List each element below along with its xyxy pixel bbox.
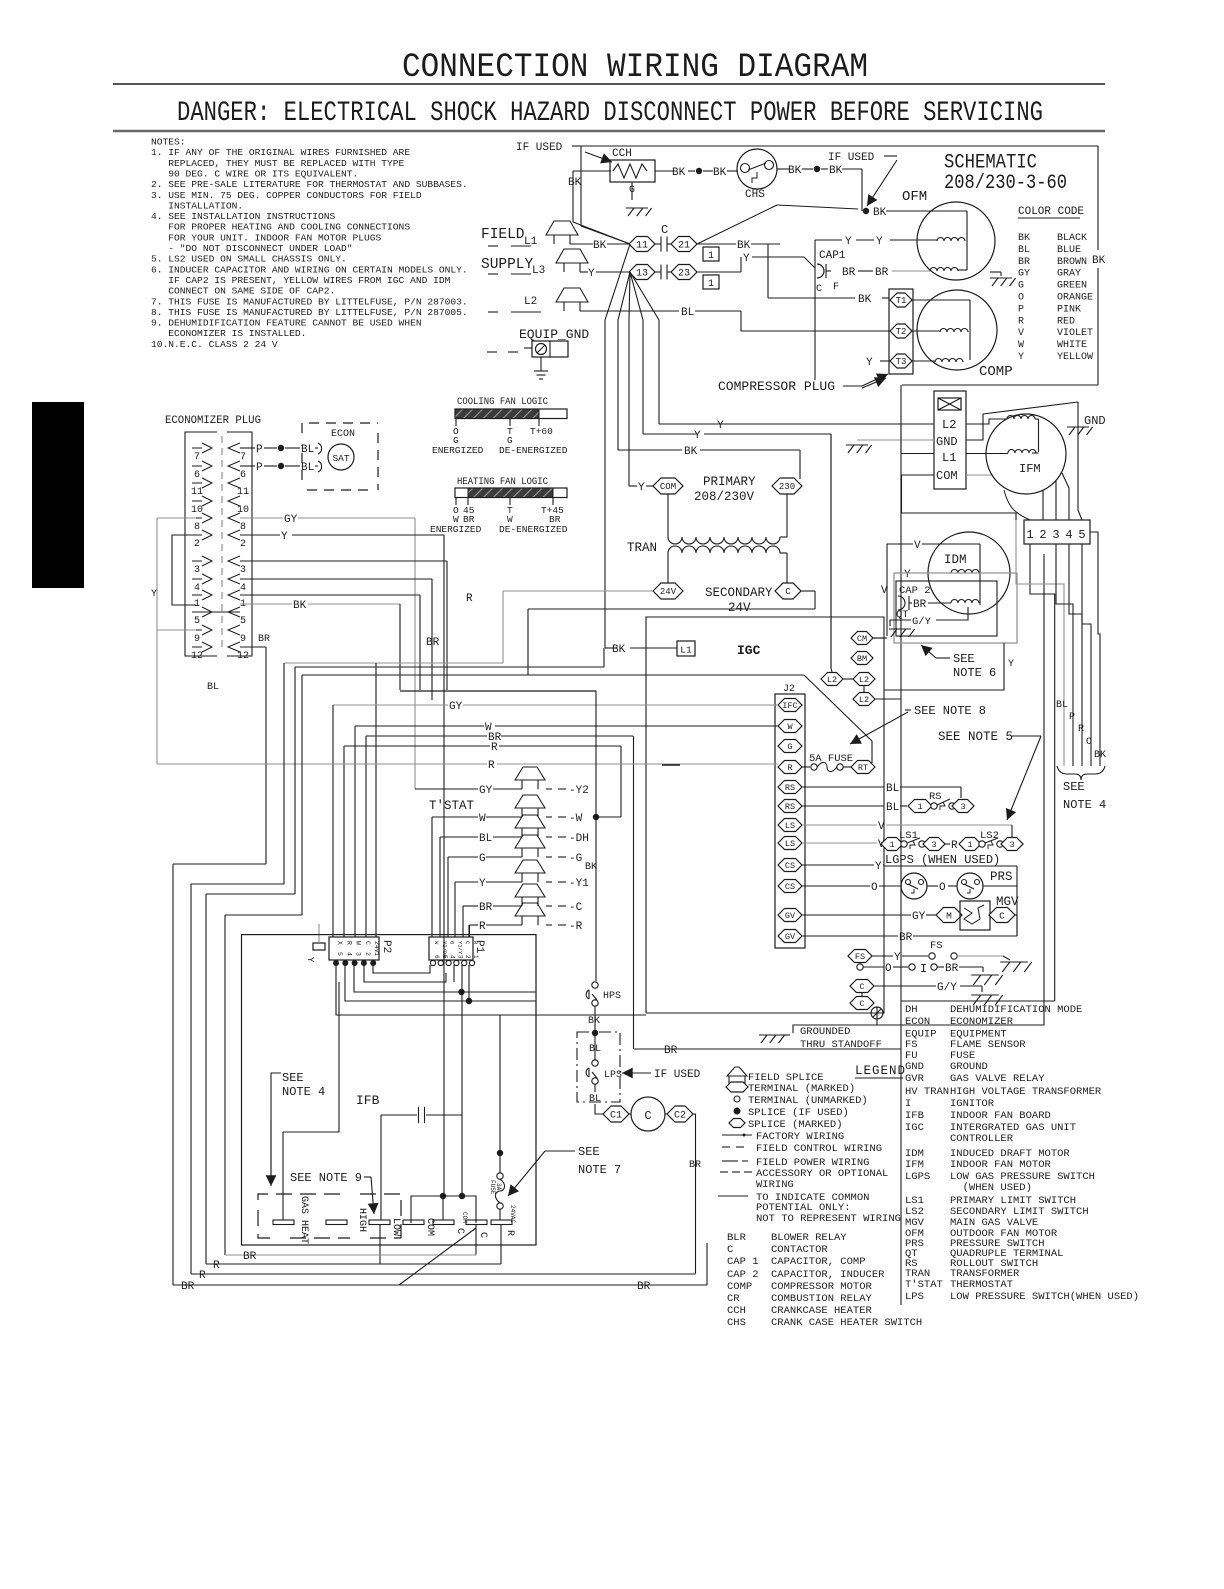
economizer pin 7 bbox=[202, 443, 212, 453]
svg-text:COMP: COMP bbox=[727, 1281, 752, 1293]
wire pin2 long vertical bbox=[877, 554, 1044, 1025]
svg-text:NOTES:: NOTES: bbox=[151, 137, 186, 148]
label SEE NOTE 4 (IFB) bbox=[271, 1073, 281, 1180]
svg-text:WHITE: WHITE bbox=[1057, 340, 1087, 351]
wire strip L2 row bbox=[659, 423, 934, 425]
LPS box (dash-dot) bbox=[577, 1032, 620, 1102]
pressure switch LGPS bbox=[802, 885, 870, 887]
wire R drop to HPS junction bbox=[620, 746, 622, 817]
wire P2-P1 interconnect 5 bbox=[336, 965, 646, 1015]
compressor plug box bbox=[889, 289, 913, 374]
switch HPS bbox=[592, 982, 598, 988]
svg-text:BK: BK bbox=[1018, 233, 1030, 244]
economizer pin 12 bbox=[202, 642, 212, 652]
wire L2 BL bbox=[580, 310, 679, 312]
svg-text:V: V bbox=[878, 821, 885, 833]
svg-text:ENERGIZED: ENERGIZED bbox=[432, 445, 484, 456]
IGC terminal CM bbox=[851, 632, 873, 645]
svg-text:R: R bbox=[345, 941, 352, 945]
J2 terminal GV bbox=[778, 909, 802, 922]
svg-text:2. SEE PRE-SALE LITERATURE FOR: 2. SEE PRE-SALE LITERATURE FOR THERMOSTA… bbox=[151, 179, 468, 190]
J2 terminal CS bbox=[778, 859, 802, 872]
terminal T2 bbox=[741, 330, 889, 332]
svg-text:L1: L1 bbox=[942, 451, 956, 465]
ground ignitor bbox=[971, 974, 999, 976]
svg-text:V: V bbox=[881, 585, 888, 597]
svg-text:R: R bbox=[787, 763, 792, 773]
svg-text:HV TRAN: HV TRAN bbox=[905, 1086, 949, 1098]
svg-text:LS: LS bbox=[785, 839, 795, 849]
wire R row bbox=[344, 745, 490, 747]
wire Y to IDM bbox=[894, 572, 903, 574]
heating fan logic bar bbox=[455, 488, 567, 498]
svg-text:GND: GND bbox=[905, 1061, 924, 1073]
svg-text:24VAC: 24VAC bbox=[509, 1205, 516, 1223]
svg-text:FS: FS bbox=[930, 940, 943, 952]
svg-text:13: 13 bbox=[636, 269, 648, 280]
svg-text:3: 3 bbox=[355, 952, 362, 956]
svg-text:Y: Y bbox=[894, 952, 901, 964]
svg-text:FIELD: FIELD bbox=[481, 227, 525, 243]
J2 terminal IFC bbox=[778, 699, 802, 712]
wire econ 8 GY to tstat Y2 and J2 bbox=[240, 517, 283, 519]
svg-text:O: O bbox=[885, 963, 892, 975]
svg-text:2: 2 bbox=[364, 952, 371, 956]
svg-text:Y: Y bbox=[875, 861, 882, 873]
svg-text:Y: Y bbox=[866, 357, 873, 369]
svg-text:R: R bbox=[199, 1270, 206, 1282]
svg-text:QT: QT bbox=[896, 609, 909, 621]
svg-text:G/Y: G/Y bbox=[912, 616, 932, 628]
ignitor I bbox=[857, 964, 863, 970]
svg-text:YELLOW: YELLOW bbox=[1057, 352, 1093, 363]
t'stat splice -W bbox=[432, 816, 478, 818]
svg-text:CM: CM bbox=[857, 634, 867, 644]
svg-text:5: 5 bbox=[194, 616, 200, 627]
svg-text:C: C bbox=[364, 941, 371, 945]
svg-text:BK: BK bbox=[829, 165, 843, 177]
svg-text:C: C bbox=[727, 1244, 733, 1256]
svg-text:23: 23 bbox=[678, 269, 690, 280]
svg-text:4. SEE INSTALLATION INSTRUCTIO: 4. SEE INSTALLATION INSTRUCTIONS bbox=[151, 211, 335, 222]
svg-text:GY: GY bbox=[479, 785, 493, 797]
indoor fan motor IFM bbox=[986, 414, 1066, 494]
svg-text:-W: -W bbox=[569, 813, 583, 825]
svg-text:LS2: LS2 bbox=[980, 830, 999, 842]
svg-text:5: 5 bbox=[240, 616, 246, 627]
field wiring dashes L3 bbox=[488, 273, 498, 275]
svg-text:C: C bbox=[816, 284, 822, 295]
ground OFM bbox=[990, 277, 1012, 279]
svg-text:G/Y: G/Y bbox=[937, 982, 957, 994]
svg-text:SEE: SEE bbox=[1063, 780, 1085, 794]
svg-text:BR: BR bbox=[875, 267, 889, 279]
svg-text:CCH: CCH bbox=[727, 1305, 746, 1317]
wire CCH G to ground bbox=[631, 182, 633, 200]
svg-text:SEE: SEE bbox=[953, 652, 975, 666]
svg-text:TRAN: TRAN bbox=[627, 541, 657, 555]
outdoor fan motor OFM bbox=[917, 202, 995, 280]
wire BR bottom rail bbox=[634, 1048, 902, 1050]
svg-text:C: C bbox=[859, 982, 864, 992]
IDM coil 2 bbox=[951, 600, 979, 604]
IFB com box bbox=[411, 1196, 476, 1223]
economizer plug left shell bbox=[185, 432, 217, 656]
svg-text:BL: BL bbox=[207, 682, 219, 693]
svg-text:CCH: CCH bbox=[612, 148, 632, 160]
svg-text:BL: BL bbox=[886, 783, 899, 795]
brace see note 4 bbox=[1057, 766, 1105, 780]
svg-text:CS: CS bbox=[785, 882, 795, 892]
svg-text:G: G bbox=[787, 742, 792, 752]
svg-text:INDOOR FAN BOARD: INDOOR FAN BOARD bbox=[950, 1110, 1051, 1122]
svg-text:2: 2 bbox=[240, 539, 246, 550]
IFB terminal GAS HEAT bbox=[273, 1220, 294, 1225]
svg-text:I: I bbox=[905, 1098, 911, 1110]
economizer pin 4 bbox=[202, 574, 212, 584]
svg-text:BK: BK bbox=[568, 177, 582, 189]
svg-text:-C: -C bbox=[569, 902, 583, 914]
svg-text:CONNECT ON SAME SIDE OF CAP2.: CONNECT ON SAME SIDE OF CAP2. bbox=[151, 286, 335, 297]
wire R bottom 2 bbox=[206, 1263, 501, 1265]
wire BR bottom 1 bbox=[225, 1254, 476, 1256]
svg-text:3: 3 bbox=[1052, 528, 1059, 542]
svg-text:BK: BK bbox=[788, 165, 802, 177]
svg-text:C: C bbox=[644, 1109, 651, 1123]
svg-text:ECONOMIZER IS INSTALLED.: ECONOMIZER IS INSTALLED. bbox=[151, 328, 306, 339]
svg-text:G: G bbox=[1018, 281, 1024, 292]
svg-text:BR: BR bbox=[181, 1281, 195, 1293]
svg-text:M: M bbox=[946, 910, 952, 921]
crank case heater switch CHS bbox=[737, 149, 777, 189]
IGC terminal BM bbox=[851, 652, 873, 665]
J2 terminal W bbox=[778, 720, 802, 733]
svg-text:BR: BR bbox=[426, 637, 440, 649]
svg-text:10: 10 bbox=[237, 505, 249, 516]
t'stat splice -Y2 bbox=[415, 788, 478, 790]
svg-text:NOTE 6: NOTE 6 bbox=[953, 666, 996, 680]
svg-text:BK: BK bbox=[1094, 750, 1106, 761]
svg-text:BR: BR bbox=[463, 514, 475, 525]
IFB capacitor bbox=[381, 1114, 417, 1116]
svg-text:THRU STANDOFF: THRU STANDOFF bbox=[800, 1039, 882, 1051]
svg-text:IFB: IFB bbox=[356, 1093, 380, 1108]
economizer plug mating line (dashed) bbox=[221, 436, 223, 652]
svg-text:SPLICE (MARKED): SPLICE (MARKED) bbox=[748, 1119, 843, 1131]
wire econ left Y bracket pins 8-5 bbox=[185, 517, 202, 519]
top rail wire bbox=[581, 145, 1098, 147]
svg-text:R: R bbox=[1018, 316, 1024, 327]
svg-text:208/230-3-60: 208/230-3-60 bbox=[944, 172, 1067, 195]
svg-text:CAP1: CAP1 bbox=[819, 250, 846, 262]
svg-text:BK: BK bbox=[873, 207, 887, 219]
svg-text:IF USED: IF USED bbox=[654, 1069, 701, 1081]
IFB terminal C/COM bbox=[466, 1220, 487, 1225]
wire R row to J2 R bbox=[157, 763, 487, 765]
svg-text:DE-ENERGIZED: DE-ENERGIZED bbox=[499, 445, 568, 456]
flame sensor FS bbox=[848, 950, 872, 963]
svg-text:12: 12 bbox=[191, 651, 203, 662]
legend factory wiring bbox=[722, 1134, 752, 1136]
wire GND corner to pin5 bbox=[1078, 402, 1082, 520]
svg-text:L2: L2 bbox=[859, 675, 869, 685]
svg-text:W: W bbox=[479, 813, 486, 825]
svg-text:R: R bbox=[951, 840, 958, 852]
svg-text:OFM: OFM bbox=[902, 189, 927, 205]
svg-text:BL: BL bbox=[479, 833, 492, 845]
HV fuse crossed box bbox=[938, 398, 961, 410]
wire IF USED to top rail bbox=[572, 145, 581, 147]
header rule 1 bbox=[113, 83, 1105, 85]
svg-text:DE-ENERGIZED: DE-ENERGIZED bbox=[499, 524, 568, 535]
wire econ 12 BR down-left bbox=[240, 646, 266, 648]
equip ground screw terminal bbox=[524, 347, 532, 349]
svg-text:4: 4 bbox=[345, 952, 352, 956]
wire IDM coil2 down bbox=[962, 607, 968, 620]
wire BR drop to bottom rail bbox=[633, 736, 635, 1049]
schematic box left edge / legend separator bbox=[900, 385, 902, 1305]
economizer pin 11 bbox=[202, 478, 212, 488]
svg-text:O: O bbox=[1018, 293, 1024, 304]
wires IFM to connector bbox=[1004, 490, 1030, 520]
svg-text:1: 1 bbox=[917, 802, 922, 812]
field wiring dashes L1 bbox=[488, 245, 498, 247]
economizer pin 3 bbox=[202, 556, 212, 566]
svg-text:L3: L3 bbox=[532, 265, 545, 277]
wire Y to TRAN COM bbox=[629, 485, 637, 487]
svg-text:BL: BL bbox=[301, 444, 314, 456]
svg-text:HEATING FAN LOGIC: HEATING FAN LOGIC bbox=[457, 476, 548, 488]
legend terminal marked bbox=[726, 1082, 748, 1092]
svg-text:IGC: IGC bbox=[905, 1122, 924, 1134]
svg-text:X: X bbox=[336, 941, 343, 945]
svg-text:11: 11 bbox=[636, 241, 648, 252]
contactor coil C bbox=[631, 1097, 665, 1131]
svg-text:LS: LS bbox=[785, 821, 795, 831]
arrow to CCH bbox=[585, 152, 612, 162]
svg-text:DANGER: ELECTRICAL SHOCK HAZAR: DANGER: ELECTRICAL SHOCK HAZARD DISCONNE… bbox=[177, 98, 1043, 129]
svg-text:5: 5 bbox=[441, 955, 448, 959]
svg-text:1: 1 bbox=[708, 279, 714, 290]
svg-text:5A FUSE: 5A FUSE bbox=[809, 753, 853, 765]
svg-text:T2: T2 bbox=[896, 327, 907, 337]
economizer pin 5 bbox=[202, 607, 212, 617]
wire Y to LGPS bbox=[802, 864, 874, 866]
terminal T3 bbox=[880, 360, 916, 362]
wire BR diagonal to C terminal bbox=[399, 1228, 476, 1285]
svg-text:R: R bbox=[479, 921, 486, 933]
field wiring dashes L2 bbox=[488, 311, 498, 313]
svg-text:R: R bbox=[504, 1230, 515, 1236]
IFB terminal COM bbox=[403, 1220, 424, 1225]
svg-text:LPS: LPS bbox=[905, 1291, 924, 1303]
svg-text:Y: Y bbox=[694, 430, 701, 442]
svg-text:J2: J2 bbox=[783, 684, 795, 695]
svg-text:BR: BR bbox=[689, 1160, 701, 1171]
svg-text:GY: GY bbox=[449, 701, 463, 713]
svg-text:PRS: PRS bbox=[990, 870, 1013, 884]
svg-text:BROWN: BROWN bbox=[1057, 257, 1087, 268]
svg-text:4: 4 bbox=[449, 955, 456, 959]
wire P2-P1 interconnect 3 bbox=[354, 965, 536, 992]
svg-text:8: 8 bbox=[194, 522, 200, 533]
arrow compressor plug bbox=[862, 374, 888, 386]
wire T2 from BL bbox=[695, 310, 741, 312]
svg-text:NOTE 4: NOTE 4 bbox=[1063, 798, 1106, 812]
svg-text:4: 4 bbox=[240, 583, 246, 594]
svg-text:BK: BK bbox=[1092, 255, 1106, 267]
splice dot 2 bbox=[814, 166, 820, 172]
svg-text:1. IF ANY OF THE ORIGINAL WIRE: 1. IF ANY OF THE ORIGINAL WIRES FURNISHE… bbox=[151, 147, 410, 158]
wire CCH right BK bbox=[655, 170, 675, 172]
svg-text:Y: Y bbox=[845, 236, 852, 248]
svg-text:3: 3 bbox=[1009, 840, 1014, 850]
svg-text:IF USED: IF USED bbox=[828, 152, 875, 164]
svg-text:COM: COM bbox=[936, 469, 958, 483]
induced draft motor IDM bbox=[928, 532, 1010, 614]
svg-text:BR: BR bbox=[842, 267, 856, 279]
legend field control wiring bbox=[722, 1146, 730, 1148]
svg-text:9: 9 bbox=[240, 634, 246, 645]
arrow IF USED to OFM wire bbox=[867, 160, 897, 206]
svg-text:24V: 24V bbox=[728, 601, 751, 615]
terminal T1 bbox=[890, 293, 912, 307]
svg-text:FUSE: FUSE bbox=[489, 1180, 496, 1195]
svg-text:BL: BL bbox=[1018, 245, 1030, 256]
wire strip COM row bbox=[966, 474, 993, 476]
svg-text:RT: RT bbox=[858, 763, 868, 773]
svg-text:I: I bbox=[920, 962, 927, 976]
J2 terminal RS bbox=[778, 781, 802, 794]
ground IFM bbox=[1067, 426, 1089, 428]
svg-text:O: O bbox=[871, 882, 878, 894]
wire 21 BK right bbox=[697, 243, 736, 245]
svg-text:GND: GND bbox=[936, 435, 958, 449]
svg-text:Y: Y bbox=[479, 878, 486, 890]
legend field splice bbox=[727, 1067, 747, 1076]
svg-text:T+60: T+60 bbox=[530, 426, 553, 437]
wire BK to OFM bbox=[886, 210, 967, 212]
svg-text:(WHEN USED): (WHEN USED) bbox=[950, 1182, 1032, 1194]
svg-text:Y: Y bbox=[1008, 659, 1014, 670]
svg-text:5: 5 bbox=[336, 952, 343, 956]
wire V to IDM bbox=[887, 544, 913, 636]
svg-text:BR: BR bbox=[913, 599, 927, 611]
svg-text:1: 1 bbox=[1026, 528, 1033, 542]
svg-text:T3: T3 bbox=[896, 357, 907, 367]
svg-text:4: 4 bbox=[1065, 528, 1072, 542]
svg-text:P2: P2 bbox=[380, 940, 392, 953]
wire Y-23 to CAP1 bbox=[752, 256, 804, 258]
svg-text:3: 3 bbox=[960, 802, 965, 812]
IFB terminal R bbox=[491, 1220, 512, 1225]
wire R bottom 3 bbox=[191, 1273, 696, 1275]
contactor contact 11-21 bbox=[629, 237, 655, 252]
wire BK to TRAN 230 bbox=[618, 449, 682, 451]
svg-text:INDOOR FAN MOTOR: INDOOR FAN MOTOR bbox=[950, 1159, 1052, 1171]
quad terminal strip bbox=[934, 391, 966, 489]
svg-text:P: P bbox=[256, 444, 263, 456]
svg-text:3. USE MIN. 75 DEG. COPPER CON: 3. USE MIN. 75 DEG. COPPER CONDUCTORS FO… bbox=[151, 190, 422, 201]
svg-text:G: G bbox=[449, 941, 456, 944]
svg-text:1: 1 bbox=[889, 840, 894, 850]
svg-text:ECONOMIZER: ECONOMIZER bbox=[950, 1016, 1014, 1028]
economizer pin 1 bbox=[202, 590, 212, 600]
wire to OFM rail bbox=[842, 168, 862, 170]
svg-text:GY: GY bbox=[912, 911, 926, 923]
J2 terminal RS bbox=[778, 800, 802, 813]
svg-text:GND: GND bbox=[1084, 414, 1106, 428]
svg-text:-Y1: -Y1 bbox=[569, 878, 589, 890]
wire 24V secondary to left bbox=[503, 590, 653, 592]
svg-text:SEE: SEE bbox=[578, 1145, 600, 1159]
svg-text:Y: Y bbox=[904, 569, 911, 581]
svg-text:CAP 2: CAP 2 bbox=[727, 1269, 759, 1281]
wire L3 Y to terminal 13 bbox=[580, 271, 588, 273]
IFM connector 1 2 3 4 5 bbox=[1024, 520, 1090, 544]
legend terminal unmarked bbox=[734, 1096, 740, 1102]
svg-text:BK: BK bbox=[293, 600, 307, 612]
bus wire BK down to IGC L1 bbox=[604, 320, 606, 648]
splice dot OFM bbox=[863, 208, 869, 214]
svg-text:L2: L2 bbox=[942, 418, 956, 432]
svg-text:RS: RS bbox=[929, 791, 942, 803]
svg-text:ORANGE: ORANGE bbox=[1057, 293, 1093, 304]
economizer pin 9 bbox=[202, 625, 212, 635]
svg-text:BK: BK bbox=[585, 862, 597, 873]
wire down to HPS bbox=[595, 691, 597, 981]
svg-text:ECON: ECON bbox=[331, 429, 355, 440]
svg-text:Y: Y bbox=[876, 236, 883, 248]
svg-text:- "DO NOT DISCONNECT UNDER LOA: - "DO NOT DISCONNECT UNDER LOAD" bbox=[151, 243, 353, 254]
svg-text:EQUIP_GND: EQUIP_GND bbox=[519, 327, 589, 342]
IDM coil 1 bbox=[951, 570, 979, 574]
economizer plug right shell bbox=[227, 432, 252, 656]
svg-text:SECONDARY: SECONDARY bbox=[705, 586, 773, 600]
svg-text:L2: L2 bbox=[859, 695, 869, 705]
compressor motor COMP bbox=[917, 290, 997, 370]
svg-text:FOR PROPER HEATING AND COOLING: FOR PROPER HEATING AND COOLING CONNECTIO… bbox=[151, 222, 410, 233]
svg-text:GV: GV bbox=[785, 932, 796, 942]
svg-text:COMBUSTION RELAY: COMBUSTION RELAY bbox=[771, 1293, 873, 1305]
svg-text:P: P bbox=[1018, 304, 1024, 315]
svg-text:R: R bbox=[488, 760, 495, 772]
staircase wire 3 bbox=[294, 667, 296, 894]
svg-text:BL: BL bbox=[1056, 700, 1068, 711]
svg-text:C: C bbox=[454, 1228, 465, 1234]
svg-text:-R: -R bbox=[569, 921, 583, 933]
svg-text:2: 2 bbox=[194, 539, 200, 550]
wire econ 7 P-BL to ECON bbox=[240, 447, 255, 449]
wire standoff bbox=[793, 1019, 877, 1033]
wire Y to OFM bbox=[815, 239, 842, 241]
svg-text:COM: COM bbox=[461, 1212, 468, 1223]
IFB gas heat dashed box bbox=[258, 1194, 401, 1238]
schematic section box bbox=[902, 384, 1098, 386]
svg-text:T'STAT: T'STAT bbox=[905, 1279, 943, 1291]
svg-text:-DH: -DH bbox=[569, 833, 589, 845]
wire IGC top horiz to RT bbox=[302, 674, 804, 676]
wire Y right of note6 bbox=[884, 643, 1004, 690]
svg-text:7: 7 bbox=[194, 452, 200, 463]
IFB terminal HIGH bbox=[326, 1220, 347, 1225]
contactor C2 bbox=[667, 1106, 693, 1122]
svg-text:CHS: CHS bbox=[745, 189, 765, 201]
svg-text:BR: BR bbox=[549, 514, 561, 525]
svg-text:BLOWER RELAY: BLOWER RELAY bbox=[771, 1232, 847, 1244]
svg-text:1: 1 bbox=[472, 955, 479, 959]
wire CAP1 vertical bbox=[814, 240, 816, 380]
